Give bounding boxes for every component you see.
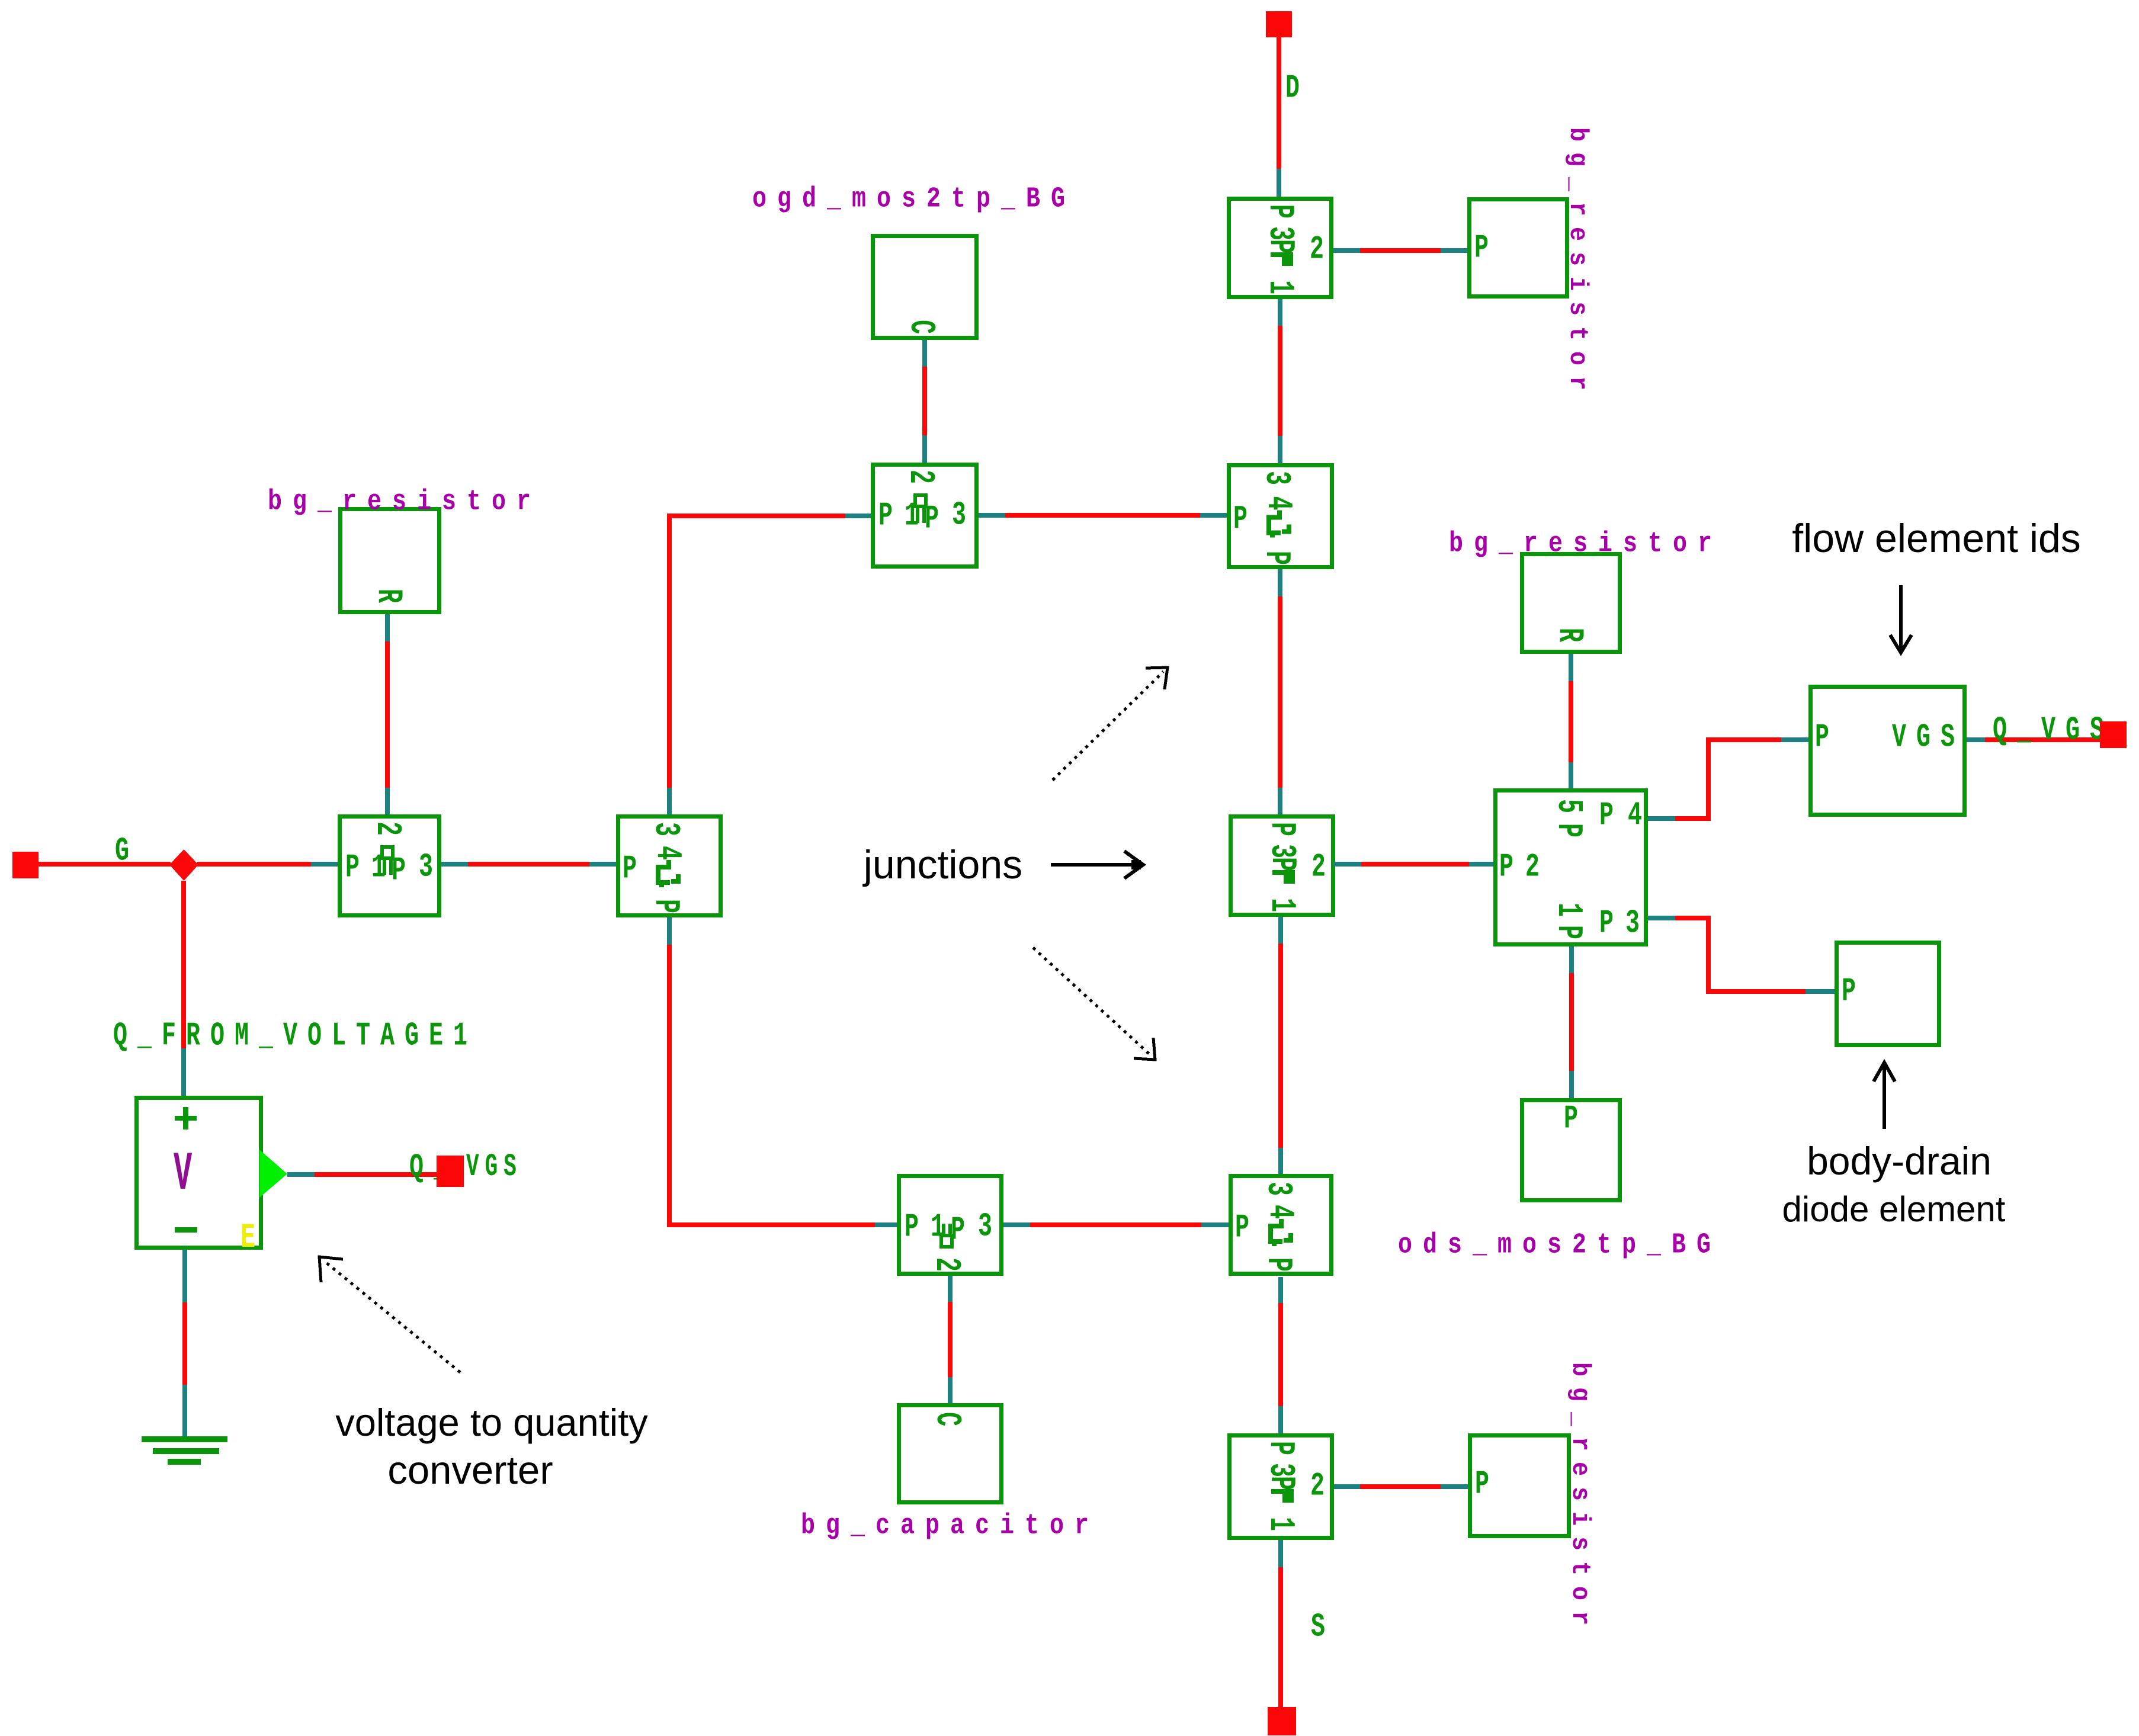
node Q_VGS label (right) (1993, 711, 2114, 749)
wire 1J-DS to mos2tp P2 (1333, 862, 1493, 867)
svg-text:ogd_mos2tp_BG: ogd_mos2tp_BG (752, 183, 1076, 215)
wire G terminal to gate junction dot (39, 862, 171, 867)
VS1 plus sign (175, 1107, 197, 1129)
annotation arrow: flow element ids (down) (1890, 585, 1912, 653)
wire 0J-SD to junction 1J-S (1278, 1277, 1283, 1433)
svg-text:R: R (1549, 628, 1589, 652)
svg-text:2: 2 (1310, 230, 1334, 268)
svg-text:P: P (1259, 204, 1299, 229)
svg-text:P: P (1256, 551, 1295, 575)
resistor RD (bg_resistor element box) (1470, 200, 1567, 297)
svg-text:S: S (1311, 1607, 1335, 1645)
junction 1J-D (drain 1-junction) icon (1260, 239, 1300, 266)
svg-text:Q_FROM_VOLTAGE1: Q_FROM_VOLTAGE1 (113, 1016, 477, 1054)
resistor RS name label bg_resistor (vertical) (1565, 1362, 1595, 1636)
svg-text:P: P (1499, 848, 1524, 885)
svg-text:P: P (1474, 229, 1499, 267)
svg-text:bg_resistor: bg_resistor (1563, 127, 1592, 401)
wire U1 port P3 (stub) (1648, 916, 1711, 920)
svg-text:P: P (1548, 823, 1588, 848)
wire P4 riser (1706, 737, 1711, 821)
junction 1J-D (drain 1-junction) (1229, 199, 1332, 297)
mos2tp element U1 (5-port MOSFET bond-graph element) (1496, 791, 1646, 945)
svg-text:2: 2 (900, 470, 939, 494)
ground symbol (142, 1436, 227, 1465)
node D terminal (red square, top) (1266, 11, 1292, 37)
svg-text:E: E (240, 1218, 255, 1258)
U1 port label P2 (1499, 848, 1524, 885)
junction 0J-SD (source-drain 0-junction) port label P1 (rotated) (1258, 1257, 1297, 1282)
wire VS1 to ground (182, 1250, 187, 1436)
svg-text:bg_resistor: bg_resistor (1449, 528, 1723, 560)
svg-text:2: 2 (1310, 1467, 1335, 1504)
junction 1J-DS (drain-source 1-junction) port label P3 (rotated) (1261, 822, 1301, 846)
svg-text:3: 3 (645, 822, 685, 846)
wire VS1 to Q_VGS source terminal (287, 1172, 437, 1177)
junction 0J-G (gate 0-junction) (618, 817, 721, 916)
junction 1J-S (source 1-junction) (1230, 1436, 1332, 1538)
svg-text:P: P (1548, 925, 1588, 949)
svg-text:bg_capacitor: bg_capacitor (801, 1510, 1099, 1542)
junction 0J-G (gate 0-junction) port label P (left) (623, 849, 647, 887)
U1 port label P3 (1599, 904, 1624, 942)
svg-text:4: 4 (1628, 796, 1652, 834)
junction 1J-GD (gate-drain 1-junction) icon (915, 495, 926, 523)
junction 0J-GD (gate-drain 0-junction) icon (1258, 496, 1297, 521)
svg-text:3: 3 (1625, 904, 1650, 942)
node Q_FROM_VOLTAGE1 label (113, 1016, 477, 1054)
svg-text:VGS: VGS (466, 1148, 522, 1185)
junction 0J-GD (gate-drain 0-junction) port label 3 (rotated) (1256, 471, 1295, 495)
wire capacitor CGD to junction 1J-GD (922, 340, 927, 463)
svg-text:ods_mos2tp_BG: ods_mos2tp_BG (1398, 1229, 1721, 1261)
junction 0J-SD (source-drain 0-junction) (1231, 1176, 1332, 1274)
resistor RDS (bg_resistor element box above U1) (1522, 554, 1620, 652)
annotation arrow: junctions lower (dashed diagonal) (1033, 948, 1155, 1060)
wire resistor RDS to U1 port P5 (1569, 654, 1573, 788)
capacitor CDS port label P (1564, 1099, 1588, 1137)
wire U1 port P4 (stub) (1648, 816, 1711, 821)
svg-text:P: P (925, 499, 949, 537)
annotation arrow: voltage converter (dashed diagonal up-left) (319, 1257, 460, 1372)
svg-text:P: P (1262, 857, 1301, 881)
junction 0J-GD (gate-drain 0-junction) port label P (left) (1233, 500, 1258, 538)
resistor RD (bg_resistor element box) port label P (1474, 229, 1499, 267)
junction 1J-GS (gate-source 1-junction) (899, 1176, 1002, 1274)
junction 1J-GD (gate-drain 1-junction) port labels P1 P3 (878, 496, 903, 534)
wire 0J-G up to gate-drain branch corner (667, 518, 672, 814)
node Q_VGS label (source side) (409, 1148, 458, 1186)
junction 1J-GD (gate-drain 1-junction) port label 2 (rotated) (900, 470, 939, 494)
svg-text:3: 3 (978, 1207, 1002, 1245)
junction 1J-G (gate 1-junction) port labels P1 P3 (345, 848, 370, 886)
svg-text:5: 5 (1548, 799, 1588, 823)
svg-text:P: P (878, 496, 903, 534)
junction 1J-S (source 1-junction) port label P1 (rotated) (1260, 1517, 1300, 1541)
svg-text:P: P (1260, 239, 1300, 264)
diode DBD (body-drain diode element box) port label P (1842, 972, 1866, 1010)
wire 1J-DS to junction 0J-SD (1278, 917, 1283, 1174)
node S terminal (red square, bottom) (1268, 1707, 1296, 1735)
U1 port label P4 (1599, 796, 1624, 834)
svg-text:P: P (392, 851, 416, 889)
svg-text:diode element: diode element (1782, 1189, 2006, 1229)
wire 0J-GD to junction 1J-DS (1278, 569, 1282, 814)
svg-text:3: 3 (1258, 1182, 1297, 1206)
wire 1J-D to junction 0J-GD (1278, 299, 1282, 463)
junction 1J-DS (drain-source 1-junction) (1231, 817, 1333, 915)
svg-text:P: P (1599, 796, 1624, 834)
flow element VGS (flow sensor box) (1811, 687, 1965, 815)
svg-text:P: P (623, 849, 647, 887)
capacitor CGS icon C (rotated) (926, 1412, 966, 1436)
svg-text:R: R (368, 589, 408, 613)
junction 1J-G (gate 1-junction) (340, 817, 440, 916)
svg-text:2: 2 (367, 822, 406, 846)
resistor RG (bg_resistor element box) (341, 509, 440, 612)
junction 1J-GD (gate-drain 1-junction) (873, 465, 977, 567)
svg-text:P: P (1261, 1476, 1300, 1500)
junction 1J-DS (drain-source 1-junction) port label P1 (rotated) (1261, 898, 1301, 922)
svg-text:voltage to quantity: voltage to quantity (335, 1401, 648, 1444)
svg-text:P: P (951, 1211, 975, 1249)
junction 1J-G (gate 1-junction) icon (382, 847, 393, 875)
junction 1J-GS (gate-source 1-junction) icon (941, 1224, 952, 1247)
wire U1 port P1 to capacitor CDS (1569, 946, 1574, 1098)
junction 1J-D (drain 1-junction) port label P1 (rotated) (1259, 280, 1299, 304)
resistor RG name label bg_resistor (268, 486, 541, 518)
wire P3 riser (1706, 916, 1711, 994)
svg-text:P: P (1842, 972, 1866, 1010)
VS1 V label (174, 1144, 192, 1205)
svg-text:VGS: VGS (1892, 718, 1965, 756)
resistor RS (bg_resistor element box) port label P (1475, 1465, 1499, 1503)
diode DBD (body-drain diode element box) (1837, 943, 1939, 1045)
VS1 minus sign (175, 1227, 197, 1233)
junction 1J-DS (drain-source 1-junction) icon (1262, 857, 1301, 884)
wire corner to junction 1J-GS (667, 1222, 897, 1227)
junction 1J-S (source 1-junction) port label 2 (1310, 1467, 1335, 1504)
svg-text:P: P (1233, 500, 1258, 538)
wire gate dot to junction 1J-G (197, 862, 338, 867)
resistor RDS icon R (rotated) (1549, 628, 1589, 652)
flow element VGS name VGS (1892, 718, 1965, 756)
node S label (1311, 1607, 1335, 1645)
capacitor CDS (ods_mos2tp_BG element box below U1) (1522, 1100, 1620, 1201)
wire 1J-D to resistor RD (1333, 248, 1467, 253)
svg-text:D: D (1285, 69, 1310, 107)
junction 0J-G (gate 0-junction) icon (647, 846, 687, 870)
junction 1J-DS (drain-source 1-junction) port label 2 (1311, 848, 1336, 885)
svg-text:P: P (645, 899, 685, 923)
node G label (115, 832, 139, 869)
wire flow sensor VGS to Q_VGS terminal (1967, 737, 2102, 742)
wire 1J-GS to junction 0J-SD (1003, 1222, 1229, 1227)
junction 0J-SD (source-drain 0-junction) port label P (left) (1235, 1208, 1259, 1246)
junction 1J-GS (gate-source 1-junction) port label 2 (rotated) (926, 1257, 966, 1282)
resistor RS (bg_resistor element box) (1470, 1436, 1569, 1536)
U1 port label P5 (rotated) (1548, 799, 1588, 823)
svg-text:P: P (905, 1208, 929, 1246)
wire P3 riser to diode DBD (1706, 989, 1835, 994)
wire resistor RG to junction 1J-G (385, 614, 390, 814)
svg-text:bg_resistor: bg_resistor (268, 486, 541, 518)
junction 1J-G (gate 1-junction) port label 2 (rotated) (367, 822, 406, 846)
capacitor CGD name label ogd_mos2tp_BG (752, 183, 1076, 215)
capacitor CGD (ogd_mos2tp_BG element box) (873, 236, 977, 338)
svg-text:C: C (900, 320, 940, 344)
wire 0J-G down to gate-source branch corner (667, 917, 672, 1227)
capacitor CGD icon C (rotated) (900, 320, 940, 344)
junction 1J-GS (gate-source 1-junction) port labels P1 P3 (905, 1208, 929, 1246)
svg-text:2: 2 (926, 1257, 966, 1282)
junction 0J-G (gate 0-junction) port label P1 (rotated) (645, 899, 685, 923)
svg-text:2: 2 (1525, 848, 1550, 885)
svg-text:P: P (1235, 1208, 1259, 1246)
gate junction dot (red diamond) (169, 849, 198, 881)
junction 1J-D (drain 1-junction) port label 2 (1310, 230, 1334, 268)
svg-text:P: P (1599, 904, 1624, 942)
wire P4 riser to flow sensor VGS (1706, 737, 1808, 742)
junction 1J-S (source 1-junction) port label P3 (rotated) (1260, 1441, 1300, 1465)
junction 0J-SD (source-drain 0-junction) port label 3 (rotated) (1258, 1182, 1297, 1206)
junction 0J-SD (source-drain 0-junction) icon (1259, 1205, 1299, 1229)
svg-text:C: C (926, 1412, 966, 1436)
resistor RG icon R (rotated) (368, 589, 408, 613)
svg-text:junctions: junctions (862, 842, 1022, 887)
node D label (1285, 69, 1310, 107)
wire 1J-G to junction 0J-G (441, 862, 616, 867)
node G terminal (red square, left) (12, 852, 39, 878)
svg-text:3: 3 (1256, 471, 1295, 495)
U1 port label P1 (rotated) (1548, 903, 1588, 927)
wire 1J-S to S terminal (1278, 1540, 1283, 1707)
capacitor CGS name label bg_capacitor (801, 1510, 1099, 1542)
voltage source VS1 (voltage to quantity converter) (137, 1098, 261, 1248)
svg-text:P: P (345, 848, 370, 886)
svg-text:P: P (1564, 1099, 1588, 1137)
svg-text:flow element ids: flow element ids (1792, 516, 2081, 561)
svg-text:P: P (1260, 1441, 1300, 1465)
resistor RD name label bg_resistor (vertical) (1563, 127, 1592, 401)
wire 1J-S to resistor RS (1334, 1484, 1468, 1489)
junction 0J-GD (gate-drain 0-junction) (1229, 466, 1332, 567)
annotation arrow: junctions upper (dashed diagonal) (1053, 668, 1168, 780)
wire gate dot to voltage source VS1 (181, 881, 186, 1096)
svg-text:V: V (174, 1144, 192, 1205)
svg-text:P: P (1815, 718, 1839, 756)
junction 1J-D (drain 1-junction) port label P3 (rotated) (1259, 204, 1299, 229)
svg-text:bg_resistor: bg_resistor (1565, 1362, 1595, 1636)
capacitor CGS (bg_capacitor element box) (899, 1406, 1002, 1503)
wire 1J-GS to capacitor CGS (948, 1276, 953, 1403)
svg-text:body-drain: body-drain (1807, 1139, 1992, 1183)
svg-text:1: 1 (1260, 1517, 1300, 1541)
svg-text:3: 3 (952, 496, 976, 534)
capacitor CDS name label ods_mos2tp_BG (1398, 1229, 1721, 1261)
svg-text:P: P (1258, 1257, 1297, 1282)
svg-text:2: 2 (1311, 848, 1336, 885)
annotation arrow: body-drain (up) (1874, 1063, 1895, 1129)
junction 0J-G (gate 0-junction) port label 3 (rotated) (645, 822, 685, 846)
wire corner to junction 1J-GD (667, 514, 871, 518)
resistor RDS name label bg_resistor (1449, 528, 1723, 560)
svg-text:1: 1 (1548, 903, 1588, 927)
node Q_VGS source terminal (red square) (437, 1156, 464, 1187)
wire D terminal to junction 1J-D (1277, 36, 1281, 197)
svg-text:Q_VGS: Q_VGS (1993, 711, 2114, 749)
wire 1J-GD to junction 0J-GD (979, 513, 1227, 518)
VS1 E label (240, 1218, 255, 1258)
flow element VGS port label P (1815, 718, 1839, 756)
svg-text:P: P (1475, 1465, 1499, 1503)
svg-text:P: P (1261, 822, 1301, 846)
node Q_VGS terminal (red square, right) (2100, 721, 2127, 748)
svg-text:converter: converter (387, 1448, 553, 1493)
VS1 output triangle (259, 1150, 287, 1198)
junction 1J-S (source 1-junction) icon (1261, 1476, 1300, 1503)
svg-text:3: 3 (419, 848, 443, 885)
annotation arrow: junctions (right) (1051, 851, 1143, 878)
junction 0J-GD (gate-drain 0-junction) port label P1 (rotated) (1256, 551, 1295, 575)
